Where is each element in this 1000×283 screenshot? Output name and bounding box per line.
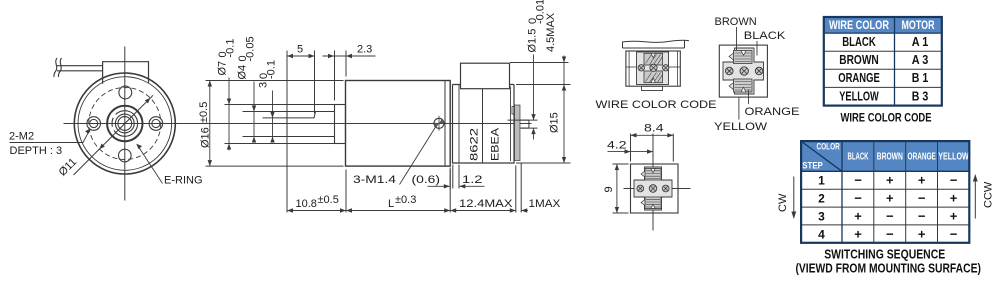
3-M1.4 leader line: [400, 127, 436, 185]
Ø7 extension bottom: [225, 143, 335, 145]
can bottom extension: [516, 162, 571, 164]
svg-text:+: +: [950, 191, 958, 206]
Ø16 dimension line: [209, 81, 211, 167]
label Ø7 0/-0.1 vertical: [217, 39, 237, 76]
extension line gearbox face up: [345, 51, 347, 77]
gearbox body: [346, 81, 451, 167]
bottom dimension line 10.8: [287, 210, 346, 212]
BLACK leader: [756, 41, 758, 56]
Ø7 extension top: [225, 104, 335, 106]
terminal block rectangle on front view: [103, 62, 149, 84]
gearbox bearing plate line: [444, 81, 446, 167]
svg-text:3-M1.4: 3-M1.4: [353, 174, 396, 186]
svg-text:1MAX: 1MAX: [529, 198, 561, 210]
label 3 0/-0.1 vertical: [258, 60, 278, 88]
connector square: [719, 45, 767, 97]
label Ø1.5 0/-0.01 vertical: [527, 0, 547, 53]
1.2 extension line seam: [458, 165, 460, 189]
3-M1.4 screw cross vertical: [438, 116, 440, 131]
svg-text:+: +: [950, 209, 958, 224]
screw left: [726, 67, 734, 75]
svg-text:SWITCHING SEQUENCE: SWITCHING SEQUENCE: [824, 248, 945, 262]
svg-text:Ø4: Ø4: [237, 65, 249, 80]
svg-text:−: −: [950, 173, 958, 188]
1.2 extension line can left: [452, 165, 454, 189]
screw right: [662, 185, 669, 192]
shaft top line: [287, 111, 335, 113]
svg-text:(VIEWD FROM MOUNTING SURFACE): (VIEWD FROM MOUNTING SURFACE): [795, 262, 981, 276]
can seam 1: [458, 85, 460, 164]
extension line can rear down: [515, 166, 517, 213]
8.4 dimension: [630, 134, 632, 162]
outer square: [631, 164, 679, 213]
rear bearing gray strip: [515, 105, 521, 161]
svg-text:Ø1.5: Ø1.5: [527, 29, 539, 53]
label Ø4 0/-0.05 vertical: [237, 36, 257, 79]
Ø4 dimension line: [253, 82, 255, 142]
svg-text:CW: CW: [777, 193, 789, 212]
body inner wall left: [628, 51, 630, 86]
fork terminal top: [729, 51, 752, 64]
dimension line 4.5MAX / Ø15: [563, 56, 565, 164]
shaft bottom line: [287, 136, 335, 138]
svg-text:BLACK: BLACK: [744, 30, 786, 42]
screw left: [638, 65, 644, 71]
svg-text:CCW: CCW: [983, 181, 995, 208]
svg-text:−: −: [854, 173, 862, 188]
left tapped hole M2 inner: [90, 119, 98, 127]
wavy break top: [622, 40, 689, 42]
screw center: [649, 185, 657, 193]
svg-text:COLOR: COLOR: [817, 141, 840, 152]
fork terminal top: [644, 53, 663, 65]
3-M1.4 screw cross horizontal: [432, 122, 447, 124]
hub thick ring: [107, 106, 142, 141]
can top extension: [516, 84, 571, 86]
CCW arrow: [974, 180, 976, 219]
svg-text:A 3: A 3: [912, 52, 929, 67]
terminal block on can: [461, 63, 510, 88]
screw center: [650, 64, 657, 71]
svg-text:4.5MAX: 4.5MAX: [545, 12, 557, 52]
svg-text:8622: 8622: [469, 128, 481, 161]
fork terminal bottom: [729, 79, 752, 92]
bottom tab: [642, 86, 663, 90]
svg-text:3: 3: [818, 210, 825, 224]
3 flat extension line: [263, 117, 288, 119]
body second band line: [626, 50, 680, 52]
extension line shaft end (long): [286, 51, 288, 213]
svg-text:WIRE COLOR: WIRE COLOR: [829, 20, 890, 32]
table grid: [824, 17, 942, 106]
Ø4 extension top: [243, 111, 288, 113]
header fill: [801, 141, 969, 171]
Ø16 extension bottom: [206, 165, 344, 167]
shaft flat line: [287, 112, 316, 118]
side mid line left: [626, 66, 637, 68]
svg-text:YELLOW: YELLOW: [714, 121, 768, 133]
svg-text:L: L: [388, 198, 394, 210]
Ø4 extension bottom: [243, 136, 288, 138]
svg-text:BLACK: BLACK: [848, 151, 869, 163]
grid: [801, 141, 969, 243]
cross plus shape: [723, 48, 764, 94]
svg-text:DEPTH : 3: DEPTH : 3: [10, 145, 63, 157]
svg-text:10.8: 10.8: [296, 198, 317, 210]
rear shaft stub top: [521, 119, 529, 121]
wire bundle bottom line: [57, 70, 103, 72]
screw center: [740, 67, 748, 75]
fork terminal top: [641, 169, 661, 181]
9 dimension: [613, 163, 629, 165]
svg-text:+: +: [918, 226, 926, 241]
screw left: [637, 185, 644, 192]
2-M2 leader line: [10, 129, 91, 142]
center line horizontal: [624, 188, 691, 190]
svg-text:−: −: [950, 226, 958, 241]
svg-text:A 1: A 1: [912, 34, 929, 49]
svg-text:-0.05: -0.05: [245, 36, 257, 61]
svg-text:ORANGE: ORANGE: [745, 106, 800, 118]
rear shaft stub bottom: [521, 127, 529, 129]
extension line boss face: [334, 51, 336, 101]
svg-text:+: +: [886, 173, 894, 188]
1.2 dimension line and arrow: [459, 185, 484, 187]
body top band: [623, 47, 685, 49]
table body fill: [824, 17, 942, 106]
svg-text:YELLOW: YELLOW: [839, 88, 879, 103]
ORANGE leader: [748, 90, 750, 105]
(0.6) dimension tail and arrow: [428, 185, 450, 187]
stub extension bottom: [521, 127, 538, 129]
screw right: [663, 65, 669, 71]
e-ring notch top-left: [110, 112, 116, 118]
svg-text:E-RING: E-RING: [164, 175, 203, 187]
svg-text:(0.6): (0.6): [412, 174, 441, 186]
svg-text:9: 9: [603, 186, 615, 192]
svg-text:STEP: STEP: [802, 161, 823, 172]
svg-text:3: 3: [258, 82, 270, 88]
svg-text:Ø7: Ø7: [217, 61, 229, 76]
svg-text:+: +: [918, 173, 926, 188]
svg-text:B 1: B 1: [912, 70, 929, 85]
5 dimension line: [287, 55, 315, 57]
right tapped hole M2 outer: [149, 117, 163, 131]
svg-text:WIRE COLOR CODE: WIRE COLOR CODE: [841, 110, 932, 124]
header fill: [824, 17, 942, 33]
can rear step line: [510, 87, 512, 162]
CW arrow: [793, 177, 795, 214]
can seam 2: [482, 89, 484, 163]
svg-text:−: −: [854, 191, 862, 206]
3-M1.4 screw quadrant wedges: [439, 119, 444, 123]
svg-text:Ø16: Ø16: [200, 127, 212, 148]
left tapped hole M2 outer: [87, 117, 101, 131]
e-ring middle circle: [115, 114, 134, 133]
svg-text:1: 1: [818, 174, 825, 188]
Ø11 arrow upper-right: [145, 98, 151, 104]
svg-text:2: 2: [818, 192, 825, 206]
center line vertical front view: [124, 47, 126, 201]
YELLOW leader: [738, 98, 740, 120]
svg-text:2.3: 2.3: [357, 44, 372, 56]
2-M2 leader arrow: [85, 129, 90, 135]
svg-text:ORANGE: ORANGE: [908, 151, 936, 163]
svg-text:BROWN: BROWN: [877, 151, 903, 163]
Ø11 diagonal dimension line: [74, 95, 154, 175]
body main rect: [626, 51, 680, 86]
motor can: [453, 85, 515, 164]
outer circle (flange): [74, 73, 175, 174]
svg-text:BROWN: BROWN: [839, 52, 879, 67]
second circle (body edge): [78, 77, 172, 171]
diagonal in corner cell: [802, 142, 843, 172]
Ø1.5 dim line upper: [533, 55, 535, 121]
bottom dimension 1MAX tail: [521, 210, 528, 212]
top hole: [119, 86, 132, 99]
svg-text:+: +: [886, 191, 894, 206]
svg-text:BROWN: BROWN: [715, 16, 757, 28]
svg-text:YELLOW: YELLOW: [938, 151, 969, 163]
extension line gearbox right down: [449, 170, 451, 213]
svg-text:4: 4: [818, 227, 825, 241]
svg-text:B 3: B 3: [912, 88, 929, 103]
rear shaft stub end: [528, 120, 530, 128]
extension line stub down: [520, 164, 522, 213]
central terminal block: [637, 52, 669, 85]
BROWN leader: [736, 27, 738, 50]
svg-text:±0.3: ±0.3: [395, 194, 416, 206]
svg-text:8.4: 8.4: [644, 123, 664, 135]
E-RING leader line: [137, 145, 163, 184]
svg-text:5: 5: [297, 44, 303, 56]
Ø7 dimension line: [228, 78, 230, 151]
svg-text:4.2: 4.2: [607, 140, 627, 152]
svg-text:WIRE COLOR CODE: WIRE COLOR CODE: [596, 99, 717, 111]
bottom dimension line L: [346, 210, 450, 212]
2.3 dimension line: [323, 55, 376, 57]
3 dimension line: [272, 91, 274, 142]
svg-text:±0.5: ±0.5: [198, 102, 210, 123]
svg-text:12.4MAX: 12.4MAX: [459, 198, 513, 210]
Ø1.5 dim line lower: [533, 128, 535, 139]
E-RING leader arrow: [136, 144, 142, 150]
screw right: [755, 67, 763, 75]
svg-text:2-M2: 2-M2: [9, 131, 34, 143]
svg-text:ORANGE: ORANGE: [838, 70, 880, 85]
extension line flat end: [314, 51, 316, 114]
wire break symbol: [54, 58, 62, 77]
dashed bolt circle (Ø11): [89, 88, 161, 160]
svg-text:-0.1: -0.1: [266, 60, 278, 79]
svg-text:Ø15: Ø15: [549, 112, 561, 133]
(0.6) extension line gearbox right: [449, 168, 451, 189]
body inner wall right: [676, 51, 678, 86]
shaft boss Ø7: [335, 105, 346, 144]
e-ring outer circle: [112, 111, 138, 137]
3-M1.4 screw symbol circle: [434, 118, 444, 128]
svg-text:EBEA: EBEA: [490, 127, 502, 161]
Ø11 arrow lower-left: [99, 144, 105, 150]
cross plus shape: [634, 167, 672, 210]
fork terminal bottom: [641, 197, 661, 209]
svg-text:−: −: [918, 209, 926, 224]
svg-text:BLACK: BLACK: [842, 34, 876, 49]
svg-text:±0.5: ±0.5: [318, 194, 339, 206]
shaft end line: [286, 112, 288, 137]
4.5MAX extension top (terminal block top): [510, 62, 569, 64]
right tapped hole M2 inner: [152, 119, 160, 127]
stub extension top: [508, 119, 538, 121]
center line vertical: [652, 134, 654, 231]
svg-text:−: −: [918, 191, 926, 206]
label Ø16±0.5 vertical: [198, 102, 212, 148]
svg-text:-0.1: -0.1: [225, 39, 237, 58]
side mid line right: [669, 66, 681, 68]
center line horizontal (shared with side view): [64, 123, 532, 125]
bottom hole: [119, 149, 132, 162]
Ø16 extension top: [206, 80, 344, 82]
svg-text:MOTOR: MOTOR: [902, 20, 936, 32]
e-ring notch bottom-left: [110, 126, 116, 132]
extension line gearbox face down: [345, 170, 347, 213]
wire bundle top line: [57, 65, 103, 67]
svg-text:+: +: [854, 209, 862, 224]
svg-text:+: +: [854, 226, 862, 241]
svg-text:−: −: [886, 209, 894, 224]
shaft circle: [118, 117, 132, 131]
4.2 dimension: [608, 151, 654, 153]
rear bearing notch: [512, 107, 514, 115]
bottom dimension line 12.4MAX: [450, 210, 516, 212]
svg-text:−: −: [886, 226, 894, 241]
fork terminal bottom: [644, 71, 663, 83]
